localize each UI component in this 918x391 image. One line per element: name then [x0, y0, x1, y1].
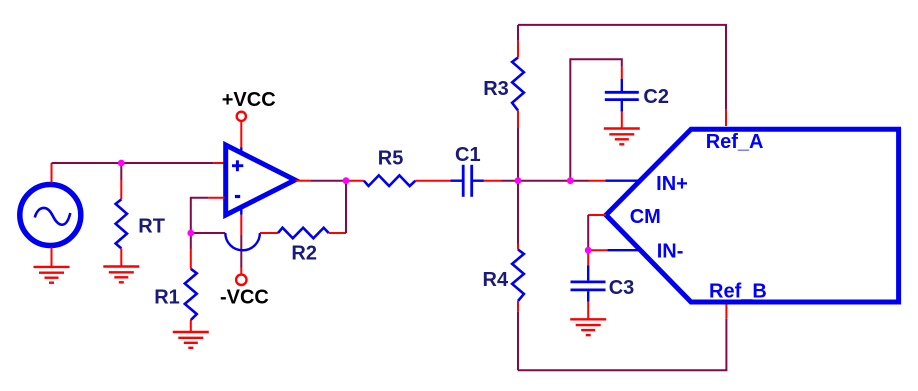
- op-amp V+ pin stub: [240, 147, 242, 154]
- svg-text:IN-: IN-: [657, 241, 684, 263]
- svg-text:-VCC: -VCC: [220, 286, 269, 308]
- wire: feedback from node to hop: [191, 232, 226, 234]
- wire: C1 to IN+ net: [484, 180, 502, 182]
- wire: bottom rail: [518, 319, 726, 371]
- wire: RT bottom lead: [120, 248, 122, 266]
- terminal -VCC: [236, 275, 246, 285]
- capacitor C1: [451, 165, 484, 197]
- capacitor C2: [605, 79, 639, 112]
- ground (source): [34, 267, 70, 283]
- svg-text:C1: C1: [455, 144, 481, 166]
- wire: RT top lead: [120, 180, 122, 199]
- resistor R5: [364, 175, 416, 186]
- wire: C2 top lead red: [621, 67, 623, 79]
- svg-text:R1: R1: [154, 286, 180, 308]
- wire: +VCC to op-amp: [240, 121, 242, 147]
- wire: IN+ net maroon: [518, 180, 589, 182]
- svg-text:R4: R4: [483, 269, 509, 291]
- node: junction input/RT: [118, 160, 125, 167]
- wire: input net horizontal: [52, 162, 214, 164]
- resistor R4: [512, 250, 524, 302]
- resistor R1: [185, 269, 197, 320]
- resistor RT: [116, 199, 127, 248]
- wire: CM red stub: [588, 214, 606, 216]
- wire: output to junction: [311, 180, 346, 182]
- wire: op-amp output red: [296, 180, 312, 182]
- svg-text:Ref_B: Ref_B: [709, 280, 767, 302]
- pin IN+ stub: [605, 179, 640, 181]
- wire: hop to R2: [260, 232, 278, 234]
- wire: C3 top lead red: [587, 250, 589, 265]
- svg-text:Ref_A: Ref_A: [706, 131, 764, 153]
- svg-text:R5: R5: [378, 147, 404, 169]
- wire: RT branch down: [120, 163, 122, 180]
- ground (RT): [103, 267, 139, 283]
- wire: C3 bottom lead red: [587, 302, 589, 320]
- wire: Ref_A red stub: [725, 110, 727, 126]
- capacitor C3: [571, 266, 606, 302]
- wire: R5 to C1: [415, 180, 450, 182]
- ground (R1): [173, 332, 209, 348]
- wire: CM down to C3 node: [587, 215, 589, 250]
- node: junction CM/C3/IN-: [585, 247, 592, 254]
- wire: - input to R1 node: [191, 198, 209, 233]
- wire: R1 branch: [190, 233, 192, 249]
- wire: R4 top lead: [517, 244, 519, 250]
- wire: R1 top lead: [190, 249, 192, 269]
- wire: top rail: [518, 25, 726, 110]
- wire: node to IN- pin red: [588, 249, 607, 251]
- svg-text:+VCC: +VCC: [222, 89, 276, 111]
- svg-text:RT: RT: [138, 215, 165, 237]
- wire: R1 bottom lead: [190, 320, 192, 332]
- wire: R3 top lead: [517, 41, 519, 58]
- AC source V1: [20, 185, 81, 246]
- op-amp U1: [226, 145, 295, 215]
- resistor R2: [278, 228, 329, 239]
- wire: R4 bottom lead: [517, 301, 519, 312]
- svg-text:C3: C3: [609, 277, 635, 299]
- wire: junction to R4: [517, 181, 519, 244]
- wire: source bottom stub: [51, 247, 53, 267]
- wire: source top stub: [51, 163, 53, 183]
- wire: Ref_B red stub: [725, 304, 727, 319]
- wire: R3 to junction: [517, 127, 519, 181]
- pin IN- stub: [607, 249, 640, 251]
- op-amp V- pin stub: [240, 207, 242, 215]
- ground (C3): [570, 319, 606, 335]
- svg-text:IN+: IN+: [656, 173, 688, 195]
- wire: op-amp V- to -VCC: [240, 215, 242, 235]
- resistor R3: [512, 58, 524, 111]
- wire: red segment to op-amp + input: [214, 162, 225, 164]
- node: junction R3/R4/IN+: [515, 177, 522, 184]
- wire: op-amp - input red: [208, 197, 224, 199]
- svg-text:C2: C2: [643, 86, 669, 108]
- wire: maroon to R3R4 junction: [502, 180, 519, 182]
- wire: R4 to bottom rail: [517, 312, 519, 371]
- svg-text:R2: R2: [291, 243, 317, 265]
- wire: feedback vertical to output: [345, 181, 347, 233]
- wire: R3 branch top: [517, 25, 519, 41]
- wire: to -VCC terminal: [240, 235, 242, 268]
- wire: red to IN+ pin: [589, 180, 606, 182]
- node: junction output/feedback: [343, 177, 350, 184]
- instrumentation amp U2: [606, 129, 899, 302]
- terminal +VCC: [237, 112, 246, 121]
- wire: junction to R5: [346, 180, 364, 182]
- node: junction -input/R1/feedback: [187, 230, 194, 237]
- wire: R3 bottom lead: [517, 111, 519, 128]
- node: junction C2 branch: [567, 177, 574, 184]
- svg-text:CM: CM: [630, 206, 661, 228]
- wire hop over -VCC line: [225, 233, 260, 250]
- wire: C2 branch up: [570, 59, 622, 180]
- wire: C2 bottom lead red: [621, 112, 623, 129]
- svg-text:R3: R3: [483, 78, 509, 100]
- wire: R2 right lead: [329, 232, 346, 234]
- ground (C2): [604, 129, 640, 145]
- wire: -VCC stub red: [240, 268, 242, 275]
